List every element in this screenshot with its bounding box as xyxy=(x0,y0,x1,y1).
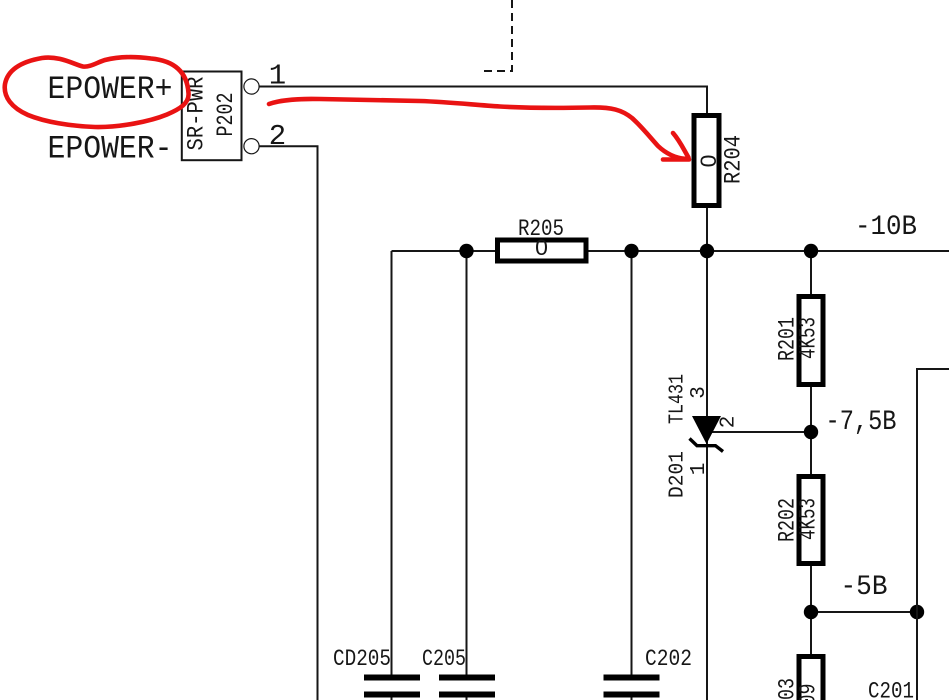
svg-text:-10B: -10B xyxy=(855,212,917,243)
svg-text:EPOWER-: EPOWER- xyxy=(48,130,173,167)
svg-text:1: 1 xyxy=(269,60,286,93)
wire down to C202 xyxy=(631,251,633,675)
wire R202 to R203 xyxy=(810,566,812,654)
wire TL431 ref to node xyxy=(707,431,811,433)
junction at R201 rail xyxy=(804,244,818,258)
wire pin1 to R204 top xyxy=(259,87,707,114)
svg-text:2: 2 xyxy=(718,416,741,429)
pin 1 circle xyxy=(244,79,259,94)
svg-text:-5B: -5B xyxy=(841,572,888,603)
red annotation arrowhead xyxy=(663,133,689,160)
svg-text:4K53: 4K53 xyxy=(796,317,822,359)
wire down to C205 xyxy=(466,251,468,675)
junction at C205 rail xyxy=(459,244,473,258)
resistor R201 xyxy=(799,297,823,385)
svg-text:EPOWER+: EPOWER+ xyxy=(48,71,173,108)
wire C205 stub xyxy=(466,698,468,700)
wire C202 stub xyxy=(631,698,633,700)
wire R204 to rail xyxy=(706,208,708,251)
resistor R202 xyxy=(799,477,823,564)
svg-text:2: 2 xyxy=(269,120,286,153)
resistor R203 xyxy=(799,657,823,700)
R204 value zero dot mask xyxy=(706,159,710,163)
wire rail corner down to CD205 xyxy=(391,251,393,675)
svg-text:P202: P202 xyxy=(213,93,239,137)
wire -10B rail xyxy=(392,250,949,252)
capacitor C202 plates xyxy=(604,675,660,698)
capacitor CD205 plates xyxy=(364,675,420,698)
red annotation pointer line xyxy=(269,99,685,159)
wire -5B node to C201 branch xyxy=(811,611,917,613)
connector P202 body xyxy=(182,72,242,161)
pin 2 circle xyxy=(244,139,259,154)
svg-text:CD205: CD205 xyxy=(333,646,391,672)
shunt regulator D201 TL431 triangle xyxy=(692,416,721,444)
junction -7,5B xyxy=(804,425,818,439)
svg-text:1: 1 xyxy=(688,463,711,476)
svg-text:-7,5B: -7,5B xyxy=(826,407,897,438)
junction at C202 rail xyxy=(624,244,638,258)
svg-text:C202: C202 xyxy=(645,646,692,672)
svg-text:D201: D201 xyxy=(667,451,690,498)
resistor R205 xyxy=(498,240,587,261)
svg-text:R204: R204 xyxy=(721,135,747,184)
wire CD205 stub xyxy=(391,698,393,700)
junction -5B left xyxy=(804,605,818,619)
wire rail down to R201 xyxy=(810,251,812,294)
svg-text:C201: C201 xyxy=(868,679,914,700)
dashed sheet boundary xyxy=(481,0,512,71)
wire down through D201 xyxy=(706,251,708,700)
red annotation loop around EPOWER+ xyxy=(5,57,189,127)
D201 cathode bar xyxy=(690,439,724,452)
wire C201 branch from right edge xyxy=(917,369,949,700)
wire R201 to R202 xyxy=(810,387,812,474)
svg-text:909: 909 xyxy=(796,684,822,700)
R205 value zero dot mask xyxy=(539,245,543,249)
wire pin2 down left side xyxy=(259,146,317,700)
svg-text:C205: C205 xyxy=(422,646,466,672)
junction at R204 rail xyxy=(700,244,714,258)
resistor R204 xyxy=(694,116,719,206)
junction -5B right xyxy=(910,605,924,619)
svg-text:3: 3 xyxy=(688,386,711,399)
svg-text:4K53: 4K53 xyxy=(796,498,822,540)
svg-text:TL431: TL431 xyxy=(667,374,690,424)
capacitor C205 plates xyxy=(439,675,495,698)
